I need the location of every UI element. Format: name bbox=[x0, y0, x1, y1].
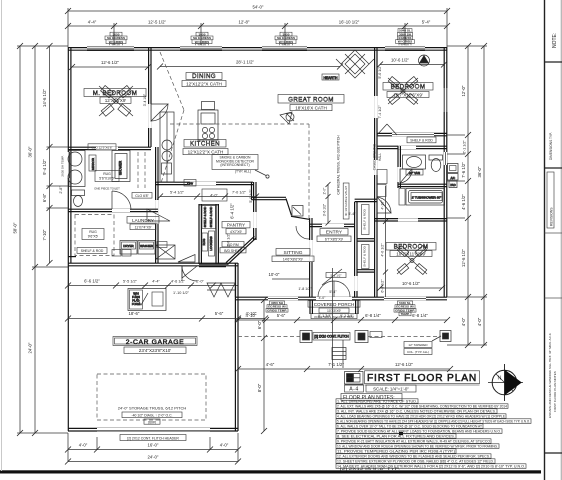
porch window label stack left bbox=[266, 301, 288, 312]
svg-text:9. PROVIDE R-21 BATT INSULATIO: 9. PROVIDE R-21 BATT INSULATION AT ALL E… bbox=[337, 440, 490, 444]
svg-text:HEARTH: HEARTH bbox=[324, 76, 338, 80]
svg-text:6'-6 1/2": 6'-6 1/2" bbox=[84, 279, 100, 284]
svg-text:4'X7'X9': 4'X7'X9' bbox=[230, 230, 242, 234]
svg-text:1'-10 1/2": 1'-10 1/2" bbox=[173, 291, 190, 295]
porch slab posts bbox=[238, 331, 451, 343]
svg-text:12'-6 1/2": 12'-6 1/2" bbox=[395, 362, 414, 367]
room label DINING bbox=[182, 73, 226, 87]
dryer washer boxes bbox=[112, 241, 195, 263]
hall2 vertical dims bbox=[373, 65, 389, 297]
svg-text:4'-0": 4'-0" bbox=[319, 296, 327, 300]
svg-text:5'-5 1/2": 5'-5 1/2" bbox=[123, 280, 138, 284]
right dimension chain outer 36'-0" bbox=[477, 43, 487, 348]
svg-text:LOCKERS: LOCKERS bbox=[209, 236, 213, 250]
svg-text:5'-4": 5'-4" bbox=[329, 290, 337, 294]
shelf and rod label laundry bbox=[77, 248, 107, 254]
svg-text:[2] 2X10 CONT. FLITCH: [2] 2X10 CONT. FLITCH bbox=[314, 335, 349, 339]
svg-text:4'-4": 4'-4" bbox=[152, 280, 160, 284]
lockers hall bbox=[202, 206, 216, 257]
svg-text:4'-0": 4'-0" bbox=[210, 194, 218, 198]
svg-text:7'-6 1/2": 7'-6 1/2" bbox=[461, 162, 466, 178]
svg-text:7. PROVIDE SOLID BLOCKING AT A: 7. PROVIDE SOLID BLOCKING AT ALL POINT L… bbox=[337, 430, 501, 434]
svg-text:10'7"X11'6"X9': 10'7"X11'6"X9' bbox=[393, 92, 423, 97]
porch step box bbox=[332, 348, 346, 360]
svg-text:KNEE WALL W/ CAP & TRIM: KNEE WALL W/ CAP & TRIM bbox=[314, 315, 354, 319]
svg-text:5'6"X10'6": 5'6"X10'6" bbox=[99, 177, 115, 181]
water heater platform bbox=[128, 289, 166, 311]
svg-text:6'-8 1/4": 6'-8 1/4" bbox=[365, 313, 381, 318]
svg-text:1'-8 1/2": 1'-8 1/2" bbox=[298, 287, 312, 291]
tapered column note bbox=[404, 336, 441, 355]
dashed ridge dining bbox=[160, 52, 184, 183]
walk-in closet label bbox=[132, 152, 152, 198]
svg-text:SCALE: 1/4"=1'-0": SCALE: 1/4"=1'-0" bbox=[373, 386, 409, 391]
svg-text:(INTERCONNECT): (INTERCONNECT) bbox=[220, 163, 249, 167]
svg-text:FIRST FLOOR PLAN NOTES: FIRST FLOOR PLAN NOTES bbox=[553, 371, 557, 412]
entry double door bbox=[318, 281, 350, 297]
wall hall2 east bbox=[398, 146, 412, 188]
svg-text:GRIDS TEMP.: GRIDS TEMP. bbox=[267, 308, 287, 312]
svg-text:12'-8": 12'-8" bbox=[239, 20, 250, 25]
svg-text:11'X7'4"X9': 11'X7'4"X9' bbox=[135, 226, 152, 230]
wall hall lockers east bbox=[199, 204, 228, 267]
svg-text:CLO 12'9"X6'8": CLO 12'9"X6'8" bbox=[91, 146, 112, 150]
svg-text:10'-6 1/2": 10'-6 1/2" bbox=[402, 281, 421, 286]
svg-text:28'-1 1/2": 28'-1 1/2" bbox=[236, 60, 255, 65]
svg-text:10'-0": 10'-0" bbox=[269, 272, 280, 277]
wall bath2 south bbox=[398, 184, 447, 186]
svg-text:3'-6 1/2": 3'-6 1/2" bbox=[323, 203, 327, 216]
svg-text:(TYP. ALL): (TYP. ALL) bbox=[235, 170, 251, 174]
svg-text:16'-10 1/2": 16'-10 1/2" bbox=[339, 20, 360, 25]
svg-text:D/W: D/W bbox=[187, 182, 193, 186]
scan edge artifact left bbox=[1, 0, 3, 471]
svg-text:BEDROOM: BEDROOM bbox=[394, 244, 429, 251]
svg-text:12'X12'2"X CATH: 12'X12'2"X CATH bbox=[186, 82, 222, 87]
door laundry bbox=[147, 209, 170, 221]
svg-text:12'-5 1/2": 12'-5 1/2" bbox=[148, 20, 167, 25]
svg-text:10'X5'X9': 10'X5'X9' bbox=[327, 309, 341, 313]
svg-text:SITTING: SITTING bbox=[284, 250, 303, 256]
ceiling fan bedroom2 bbox=[388, 55, 430, 105]
svg-text:6'7"X8'5"X9': 6'7"X8'5"X9' bbox=[325, 238, 344, 242]
svg-text:4'-6 1/2": 4'-6 1/2" bbox=[461, 194, 466, 210]
svg-text:CATHEDRAL TRUSS, 4X2-33/2 PITC: CATHEDRAL TRUSS, 4X2-33/2 PITCH bbox=[337, 135, 341, 195]
left dimension chain inner bbox=[42, 43, 63, 266]
svg-text:6'-8": 6'-8" bbox=[42, 193, 47, 202]
svg-text:SHELF & ROD: SHELF & ROD bbox=[203, 206, 207, 227]
bedroom2 corner window note bbox=[280, 112, 294, 124]
ceiling fan m.bedroom bbox=[99, 85, 133, 116]
wall bedroom2 closet north bbox=[377, 133, 447, 135]
wall bedroom3 north bbox=[374, 219, 447, 221]
svg-text:6. ALL WALLS OVER 10'-0" TALL: 6. ALL WALLS OVER 10'-0" TALL TO BE 2X6 … bbox=[337, 425, 483, 429]
room label BEDROOM 2 bbox=[383, 83, 433, 98]
door house to garage bbox=[182, 266, 197, 281]
svg-text:12'-6 1/2": 12'-6 1/2" bbox=[101, 60, 120, 65]
cathedral truss vertical note bbox=[170, 124, 349, 226]
svg-text:5'-4 1/2": 5'-4 1/2" bbox=[170, 191, 185, 195]
svg-text:KITCHEN: KITCHEN bbox=[190, 141, 220, 148]
svg-text:11. PROVIDE TEMPERED GLAZING P: 11. PROVIDE TEMPERED GLAZING PER IRC R30… bbox=[337, 450, 455, 454]
top dim extension lines bbox=[68, 8, 447, 47]
svg-text:4'-0": 4'-0" bbox=[477, 317, 482, 326]
left dimension chain 58'-0" bbox=[13, 43, 24, 436]
svg-text:[2] 2X12 IS 9'-6" TYP.: [2] 2X12 IS 9'-6" TYP. bbox=[340, 467, 400, 471]
storage truss dashed area bbox=[97, 374, 206, 424]
svg-text:4'-6 1/2": 4'-6 1/2" bbox=[171, 280, 186, 284]
svg-text:2'-0": 2'-0" bbox=[323, 187, 327, 195]
garage mid interior dim row bbox=[65, 311, 268, 322]
bottom dimension 24'-0" row bbox=[65, 455, 241, 465]
left garage interior vertical dim bbox=[257, 297, 267, 434]
wall sitting west bbox=[236, 263, 239, 297]
sheet title block right strip bbox=[545, 0, 562, 480]
svg-text:6'-0": 6'-0" bbox=[257, 320, 262, 329]
left wall window label vertical bbox=[61, 155, 65, 176]
svg-text:24'-0" STORAGE TRUSS, 6/12 PIT: 24'-0" STORAGE TRUSS, 6/12 PITCH bbox=[118, 406, 187, 411]
svg-text:5'-4": 5'-4" bbox=[422, 20, 431, 25]
svg-text:[60#]: [60#] bbox=[148, 420, 156, 424]
m.bath shower bbox=[112, 151, 130, 182]
svg-text:FORM: FORM bbox=[132, 302, 141, 306]
wall pantry diagonal / great room south jog bbox=[226, 197, 309, 264]
hall2 linen bbox=[377, 170, 387, 197]
svg-text:4'-0": 4'-0" bbox=[461, 317, 466, 326]
svg-text:8'-0": 8'-0" bbox=[257, 383, 262, 392]
wall entry west bbox=[310, 218, 312, 297]
wall laundry south bbox=[68, 209, 158, 211]
svg-text:COL. (TYP. ALL): COL. (TYP. ALL) bbox=[407, 350, 429, 354]
svg-text:MIRROR: MIRROR bbox=[91, 157, 95, 170]
svg-text:30" VAN: 30" VAN bbox=[409, 171, 420, 175]
svg-text:HALL: HALL bbox=[378, 153, 382, 161]
porch column dimension row bbox=[235, 362, 453, 372]
vertical dim pantry bbox=[227, 189, 310, 279]
room label KITCHEN bbox=[183, 140, 228, 155]
svg-text:A-4: A-4 bbox=[349, 387, 359, 393]
left dimension chain 36'-0" / 24'-0" bbox=[28, 43, 39, 436]
svg-text:LAUNDRY: LAUNDRY bbox=[132, 218, 154, 223]
bath2 toilet bbox=[429, 155, 443, 172]
svg-text:SHELF & ROD: SHELF & ROD bbox=[209, 206, 213, 227]
overall dimension 54'-0" top bbox=[65, 5, 450, 15]
kitchen island range bbox=[198, 102, 218, 141]
window label stack 1 bbox=[105, 32, 127, 48]
svg-text:CASED OPENING: CASED OPENING bbox=[373, 143, 377, 170]
svg-text:4'-0 1/2": 4'-0 1/2" bbox=[381, 243, 385, 257]
svg-text:4'-0": 4'-0" bbox=[79, 443, 88, 448]
svg-text:5'-6": 5'-6" bbox=[215, 311, 224, 316]
svg-text:24'-0": 24'-0" bbox=[28, 342, 33, 353]
title block icon bbox=[345, 372, 364, 385]
svg-text:5'-4": 5'-4" bbox=[348, 212, 356, 216]
svg-text:SHELF & ROD: SHELF & ROD bbox=[363, 245, 367, 266]
svg-text:DIMENSIONS TYP.: DIMENSIONS TYP. bbox=[549, 132, 553, 160]
room label LAUNDRY bbox=[127, 217, 159, 230]
svg-text:RUG: RUG bbox=[103, 172, 111, 176]
wall m.bedroom east bbox=[149, 47, 151, 147]
floor plan notes lines bbox=[336, 399, 531, 471]
smoke detector note bbox=[212, 155, 269, 179]
svg-text:12'-0": 12'-0" bbox=[461, 85, 466, 96]
svg-text:10'-6 1/2": 10'-6 1/2" bbox=[391, 58, 410, 63]
outer wall left bbox=[68, 47, 71, 431]
svg-text:2-CAR GARAGE: 2-CAR GARAGE bbox=[126, 339, 185, 346]
svg-text:ONE PIECE TOILET: ONE PIECE TOILET bbox=[94, 187, 120, 191]
svg-text:WASHER: WASHER bbox=[140, 244, 154, 248]
bottom dimension garage doors row bbox=[65, 443, 241, 453]
svg-text:54'-0": 54'-0" bbox=[253, 5, 264, 10]
svg-text:4'-4": 4'-4" bbox=[88, 20, 97, 25]
laundry rug label bbox=[75, 215, 114, 256]
svg-text:2'-6 1/2": 2'-6 1/2" bbox=[227, 233, 231, 247]
svg-text:TEMP.: TEMP. bbox=[400, 312, 409, 316]
svg-text:M. BEDROOM: M. BEDROOM bbox=[93, 90, 138, 97]
svg-text:SHELF & ROD: SHELF & ROD bbox=[410, 139, 433, 143]
svg-text:SHELF & ROD: SHELF & ROD bbox=[81, 249, 104, 253]
room label GREAT ROOM bbox=[278, 95, 344, 111]
svg-text:5. ALL NON-BEARING OPENINGS TO: 5. ALL NON-BEARING OPENINGS TO HAVE [2] … bbox=[337, 420, 530, 424]
svg-text:9'-4 1/2": 9'-4 1/2" bbox=[42, 159, 47, 175]
svg-text:PAD: PAD bbox=[450, 183, 455, 187]
svg-text:12'X12'2"X CATH: 12'X12'2"X CATH bbox=[188, 150, 224, 155]
svg-text:3. ALL INT. WALLS ARE 2X4 @ 16: 3. ALL INT. WALLS ARE 2X4 @ 16" O.C. UNL… bbox=[337, 410, 496, 414]
wall hall lockers west bbox=[199, 204, 201, 264]
garage steps bbox=[207, 283, 235, 297]
svg-text:40 1/2 GABLE VAULT: 40 1/2 GABLE VAULT bbox=[344, 186, 348, 216]
svg-text:6'-8 1/4": 6'-8 1/4" bbox=[412, 313, 428, 318]
svg-text:8. SEE ELECTRICAL PLAN FOR ALL: 8. SEE ELECTRICAL PLAN FOR ALL FIXTURES … bbox=[337, 435, 455, 439]
garage bottom wall bbox=[68, 428, 238, 431]
svg-text:DRYER: DRYER bbox=[123, 244, 134, 248]
room label ENTRY bbox=[317, 229, 351, 242]
right dimension chain inner bbox=[461, 43, 471, 348]
svg-text:7'-0 1/2": 7'-0 1/2" bbox=[232, 191, 247, 195]
svg-text:4'-10": 4'-10" bbox=[246, 311, 257, 316]
svg-text:2'-8": 2'-8" bbox=[59, 186, 63, 194]
interior dim great room width bbox=[157, 60, 343, 70]
svg-text:4'-0": 4'-0" bbox=[220, 443, 229, 448]
front wall right section bbox=[235, 297, 447, 300]
svg-text:5'-0 1/2": 5'-0 1/2" bbox=[249, 189, 253, 203]
room label BEDROOM 3 bbox=[386, 243, 436, 257]
door m.bedroom bbox=[151, 104, 168, 121]
svg-text:RUG: RUG bbox=[89, 230, 97, 234]
wall m.bath north bbox=[68, 147, 151, 149]
entry hall dims bbox=[298, 212, 356, 300]
svg-text:REVISIONS: REVISIONS bbox=[550, 207, 554, 226]
top dimension row 2 bbox=[65, 20, 450, 30]
svg-text:2' TUB/SHOWER 60": 2' TUB/SHOWER 60" bbox=[412, 196, 441, 200]
svg-text:7'-10": 7'-10" bbox=[42, 229, 47, 240]
svg-text:13. SHEET ENTIRE EXTERIOR W/ P: 13. SHEET ENTIRE EXTERIOR W/ PLYWOOD OR … bbox=[337, 460, 494, 464]
svg-text:CLO 6'8": CLO 6'8" bbox=[135, 194, 149, 198]
svg-text:12. ALL EXTERIOR DOORS AND WIN: 12. ALL EXTERIOR DOORS AND WINDOWS TO BE… bbox=[337, 455, 490, 459]
svg-text:ESCAPE AND RESCUE WINDOW SILL: ESCAPE AND RESCUE WINDOW SILL HGT. 44" M… bbox=[548, 333, 552, 418]
svg-text:9'6"X5': 9'6"X5' bbox=[88, 235, 99, 239]
svg-text:2. ALL EXT. WALLS ARE 2X6 @ 16: 2. ALL EXT. WALLS ARE 2X6 @ 16" O.C. W/ … bbox=[337, 405, 507, 409]
title FIRST FLOOR PLAN bbox=[365, 371, 480, 385]
wall entry north bbox=[309, 224, 355, 226]
svg-text:24'-0": 24'-0" bbox=[148, 455, 159, 460]
garage right wall bbox=[235, 263, 238, 431]
outer wall top bbox=[68, 47, 447, 51]
svg-text:N: N bbox=[498, 376, 502, 382]
svg-text:18'X16'X CATH: 18'X16'X CATH bbox=[295, 106, 327, 111]
svg-text:SHELF & ROD: SHELF & ROD bbox=[363, 208, 367, 229]
garage header label bbox=[120, 435, 186, 441]
svg-text:NOTE:: NOTE: bbox=[552, 33, 558, 48]
shelf and rod vertical closet A bbox=[362, 205, 370, 235]
covered porch label bbox=[308, 268, 360, 368]
svg-text:2'-0": 2'-0" bbox=[196, 280, 204, 284]
svg-text:RUG: RUG bbox=[202, 238, 206, 245]
svg-text:4. ALL LOAD BEARING OPENINGS T: 4. ALL LOAD BEARING OPENINGS TO HAVE [2]… bbox=[337, 415, 506, 419]
svg-text:10. ALL WINDOW AND DOOR ROUGH: 10. ALL WINDOW AND DOOR ROUGH OPENINGS S… bbox=[337, 445, 498, 449]
svg-text:5'-0 1/2": 5'-0 1/2" bbox=[378, 65, 382, 79]
svg-text:12" TAPERED: 12" TAPERED bbox=[408, 343, 428, 347]
window label stack 4 bbox=[396, 29, 415, 48]
svg-text:6'-4 1/2": 6'-4 1/2" bbox=[230, 203, 235, 219]
right dim extension lines bbox=[447, 46, 487, 345]
wall laundry west stub bbox=[68, 256, 76, 258]
m.bath rug label bbox=[94, 171, 120, 191]
svg-text:23'4"X23'8"X10': 23'4"X23'8"X10' bbox=[139, 348, 172, 353]
wall great room east / bedroom2 west bbox=[375, 47, 377, 297]
wall pantry east bbox=[254, 182, 256, 240]
floor plan notes heading bbox=[341, 394, 402, 401]
svg-text:12'-6 1/2": 12'-6 1/2" bbox=[461, 248, 466, 267]
svg-text:1. ALL DIMENSIONS ARE TO FACE: 1. ALL DIMENSIONS ARE TO FACE OF STUD. bbox=[337, 400, 417, 404]
interior dim bedroom2 width bbox=[377, 58, 447, 68]
rear wall left section (house/garage) bbox=[68, 263, 238, 266]
wall bath2 north bbox=[377, 146, 447, 148]
shelf and rod bedroom2 closet bbox=[377, 124, 436, 143]
m.bath vanity bbox=[68, 151, 96, 187]
svg-text:2'-1 1/2": 2'-1 1/2" bbox=[463, 140, 467, 154]
left dim extension lines bbox=[17, 46, 68, 433]
svg-text:36'-0": 36'-0" bbox=[28, 146, 33, 157]
shelf and rod vertical closet B bbox=[362, 245, 370, 269]
svg-text:58'-0": 58'-0" bbox=[13, 222, 18, 233]
m.toilet room bbox=[72, 190, 132, 209]
bedroom3 width dim bbox=[377, 281, 445, 291]
room label 2-CAR GARAGE bbox=[113, 337, 197, 354]
svg-text:14'6"X8'6"X9': 14'6"X8'6"X9' bbox=[283, 258, 304, 262]
title scale bbox=[366, 385, 416, 392]
bedroom3 door bbox=[377, 197, 391, 213]
svg-text:-40 1/2" DIAGL ↑ 2'-0" O.C.: -40 1/2" DIAGL ↑ 2'-0" O.C. bbox=[132, 414, 173, 418]
sheet bottom border bar bbox=[0, 470, 541, 473]
wall kitchen south bbox=[155, 182, 253, 199]
svg-text:2630 SH TEMP.: 2630 SH TEMP. bbox=[61, 155, 65, 176]
wall hall west / kitchen bbox=[156, 147, 158, 263]
room label PANTRY bbox=[220, 222, 250, 253]
svg-text:PANTRY: PANTRY bbox=[227, 223, 245, 228]
bedroom3 window label stack bbox=[394, 301, 416, 316]
title A-4 bbox=[345, 385, 364, 393]
a/c pad outside right wall bbox=[448, 164, 459, 188]
svg-text:COVERED PORCH: COVERED PORCH bbox=[314, 302, 355, 307]
svg-text:18'-6": 18'-6" bbox=[129, 311, 140, 316]
window label stack 3 bbox=[275, 32, 297, 48]
svg-text:A/C: A/C bbox=[451, 176, 456, 180]
bath2 vanity bbox=[403, 155, 426, 175]
interior dim m.bedroom width bbox=[69, 60, 151, 150]
garage upper interior dim row bbox=[65, 279, 238, 296]
svg-text:7'-1 1/2": 7'-1 1/2" bbox=[328, 362, 344, 367]
svg-text:4'-6": 4'-6" bbox=[266, 362, 275, 367]
svg-text:[2] 2X12 CONT. FLITCH HEADER: [2] 2X12 CONT. FLITCH HEADER bbox=[127, 436, 179, 440]
svg-text:3'-4 1/2": 3'-4 1/2" bbox=[143, 93, 147, 106]
svg-text:36'-0": 36'-0" bbox=[477, 166, 482, 177]
kitchen west counter bbox=[160, 112, 196, 186]
svg-text:16'-0": 16'-0" bbox=[148, 443, 159, 448]
svg-text:14'-6 1/2": 14'-6 1/2" bbox=[42, 88, 47, 107]
north arrow bbox=[488, 364, 523, 401]
wall entry east / bedroom3 west bbox=[355, 199, 377, 297]
room label SITTING bbox=[272, 249, 314, 262]
door sitting bbox=[296, 226, 309, 239]
svg-text:5'-6": 5'-6" bbox=[277, 313, 286, 318]
svg-text:GREAT ROOM: GREAT ROOM bbox=[288, 96, 334, 103]
window label stack 2 bbox=[191, 32, 213, 48]
bottom dim extension lines garage bbox=[68, 433, 238, 462]
svg-text:ENTRY: ENTRY bbox=[326, 230, 343, 236]
kitchen dim row bbox=[157, 189, 259, 201]
outer wall right bbox=[444, 47, 447, 297]
svg-text:B/D SHELF: B/D SHELF bbox=[224, 249, 242, 253]
room label M. BEDROOM bbox=[84, 89, 146, 104]
fireplace corner bbox=[322, 50, 374, 80]
svg-text:FIRST FLOOR PLAN: FIRST FLOOR PLAN bbox=[367, 373, 477, 384]
svg-text:DINING: DINING bbox=[192, 73, 216, 80]
front dimension row house bbox=[235, 313, 450, 323]
ceiling fan bedroom3 bbox=[397, 245, 427, 274]
bath2 tub bbox=[399, 189, 445, 206]
svg-text:7'-4 1/2": 7'-4 1/2" bbox=[378, 105, 382, 119]
